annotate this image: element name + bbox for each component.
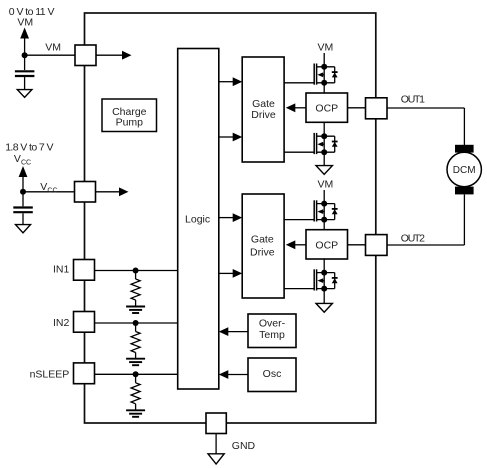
pin OUT1 xyxy=(366,98,388,119)
svg-text:Over-: Over- xyxy=(259,317,286,329)
svg-text:DCM: DCM xyxy=(453,165,476,176)
svg-text:Temp: Temp xyxy=(259,329,285,341)
wire OCP2 to OUT2 pin xyxy=(348,244,366,246)
ground (half-bridge 1) xyxy=(316,166,332,175)
ground (Vcc bypass) xyxy=(16,225,31,233)
svg-text:OCP: OCP xyxy=(315,103,338,115)
ground (IN2 pulldown) xyxy=(126,359,145,366)
svg-text:IN1: IN1 xyxy=(53,264,70,276)
node nSLEEP junction xyxy=(133,371,139,377)
block Gate Drive 2 xyxy=(242,194,284,298)
wire Gate Drive 2 to Q4 gate xyxy=(284,288,313,290)
pin IN2 xyxy=(74,312,95,333)
svg-text:Pump: Pump xyxy=(116,117,144,129)
svg-text:1.8 V to 7 V: 1.8 V to 7 V xyxy=(5,141,53,153)
wire nSLEEP pin to Logic xyxy=(95,373,178,375)
svg-text:CC: CC xyxy=(47,188,57,195)
block Gate Drive 1 xyxy=(242,57,284,162)
wire Q3 source to OCP2 xyxy=(323,220,325,230)
capacitor C2 (Vcc bypass) xyxy=(13,192,33,225)
wire Gate Drive 1 to Q1 gate xyxy=(284,82,313,84)
node IN1 junction xyxy=(133,268,139,274)
svg-text:GND: GND xyxy=(232,440,256,452)
wire Logic to Gate Drive 2 input A xyxy=(219,213,242,222)
pin IN1 xyxy=(74,260,95,281)
wire VM to Q1 drain xyxy=(323,53,325,67)
pin nSLEEP xyxy=(74,363,95,384)
wire VM source to VM pin xyxy=(25,54,75,56)
node IN2 junction xyxy=(133,320,139,326)
wire Q1 source to OCP1 xyxy=(323,83,325,93)
svg-text:VM: VM xyxy=(318,178,334,190)
wire OCP2 to Gate Drive 2 xyxy=(286,240,306,249)
block Over-Temp xyxy=(248,314,296,348)
wire IN1 pin to Logic xyxy=(95,270,178,272)
svg-text:OCP: OCP xyxy=(315,239,338,251)
svg-text:OUT1: OUT1 xyxy=(401,94,425,106)
wire Osc to Logic xyxy=(219,370,248,379)
svg-text:V: V xyxy=(14,153,21,165)
ground (nSLEEP pulldown) xyxy=(126,410,145,417)
Vcc supply arrow xyxy=(19,166,28,192)
wire Q2 source to ground xyxy=(323,152,325,165)
wire Logic to Gate Drive 1 input A xyxy=(219,77,242,86)
svg-text:CC: CC xyxy=(21,160,31,167)
resistor R1 (IN1 pulldown) xyxy=(131,271,140,306)
transistor Q4 (low-side FET, half-bridge 2) xyxy=(314,269,337,291)
wire OCP2 to Q4 drain xyxy=(323,259,325,273)
wire OCP1 to Gate Drive 1 xyxy=(286,103,306,112)
svg-text:Drive: Drive xyxy=(251,109,276,121)
wire OCP1 to Q2 drain xyxy=(323,122,325,136)
svg-text:VM: VM xyxy=(17,17,33,29)
label Vcc supply xyxy=(14,153,31,167)
block OCP1 xyxy=(306,93,348,122)
device outline (IC boundary) xyxy=(85,13,376,423)
wire Vcc source to Vcc pin xyxy=(23,191,75,193)
wire Q4 source to ground xyxy=(323,289,325,304)
wire motor to OUT2 xyxy=(387,194,464,245)
VM supply arrow xyxy=(20,28,29,56)
block Logic xyxy=(178,49,219,390)
resistor R2 (IN2 pulldown) xyxy=(131,323,140,358)
block Osc xyxy=(248,358,296,392)
wire VM to Q3 drain xyxy=(323,190,325,204)
wire OCP1 to OUT1 pin xyxy=(348,107,366,109)
node Vcc junction xyxy=(20,189,26,195)
pin VM xyxy=(75,45,96,66)
resistor R3 (nSLEEP pulldown) xyxy=(131,374,140,409)
wire Logic to Gate Drive 2 input B xyxy=(219,269,242,278)
svg-text:Drive: Drive xyxy=(250,246,275,258)
ground (GND pin) xyxy=(208,454,224,464)
pin GND xyxy=(206,413,226,434)
wire Gate Drive 2 to Q3 gate xyxy=(284,219,313,221)
block Charge Pump xyxy=(102,99,157,132)
svg-text:VM: VM xyxy=(318,41,334,53)
svg-text:nSLEEP: nSLEEP xyxy=(30,368,70,380)
ground (half-bridge 2) xyxy=(316,303,332,312)
wire IN2 pin to Logic xyxy=(95,322,178,324)
pin Vcc xyxy=(75,182,96,203)
svg-text:IN2: IN2 xyxy=(53,317,70,329)
ground (VM bypass) xyxy=(17,90,32,98)
svg-text:VM: VM xyxy=(45,41,61,53)
wire OUT1 to motor xyxy=(387,108,464,146)
svg-text:OUT2: OUT2 xyxy=(401,233,425,245)
pin OUT2 xyxy=(366,235,388,256)
block OCP2 xyxy=(306,230,348,259)
label Vcc net xyxy=(40,181,57,195)
capacitor C1 (VM bypass) xyxy=(15,55,35,89)
svg-text:Gate: Gate xyxy=(251,233,274,245)
wire Over-Temp to Logic xyxy=(219,327,248,336)
transistor Q2 (low-side FET, half-bridge 1) xyxy=(314,133,337,155)
svg-text:Osc: Osc xyxy=(263,368,282,380)
wire Vcc pin internal arrow xyxy=(96,187,129,196)
ground (IN1 pulldown) xyxy=(126,307,145,314)
svg-text:V: V xyxy=(40,181,47,193)
motor DCM xyxy=(447,145,481,195)
wire VM pin internal arrow xyxy=(96,51,132,60)
wire Logic to Gate Drive 1 input B xyxy=(219,133,242,142)
node VM junction xyxy=(22,52,28,58)
svg-text:Logic: Logic xyxy=(185,213,210,225)
transistor Q3 (high-side FET, half-bridge 2) xyxy=(314,200,337,222)
transistor Q1 (high-side FET, half-bridge 1) xyxy=(314,64,337,86)
wire GND pin to ground xyxy=(215,434,217,454)
wire Gate Drive 1 to Q2 gate xyxy=(284,151,313,153)
